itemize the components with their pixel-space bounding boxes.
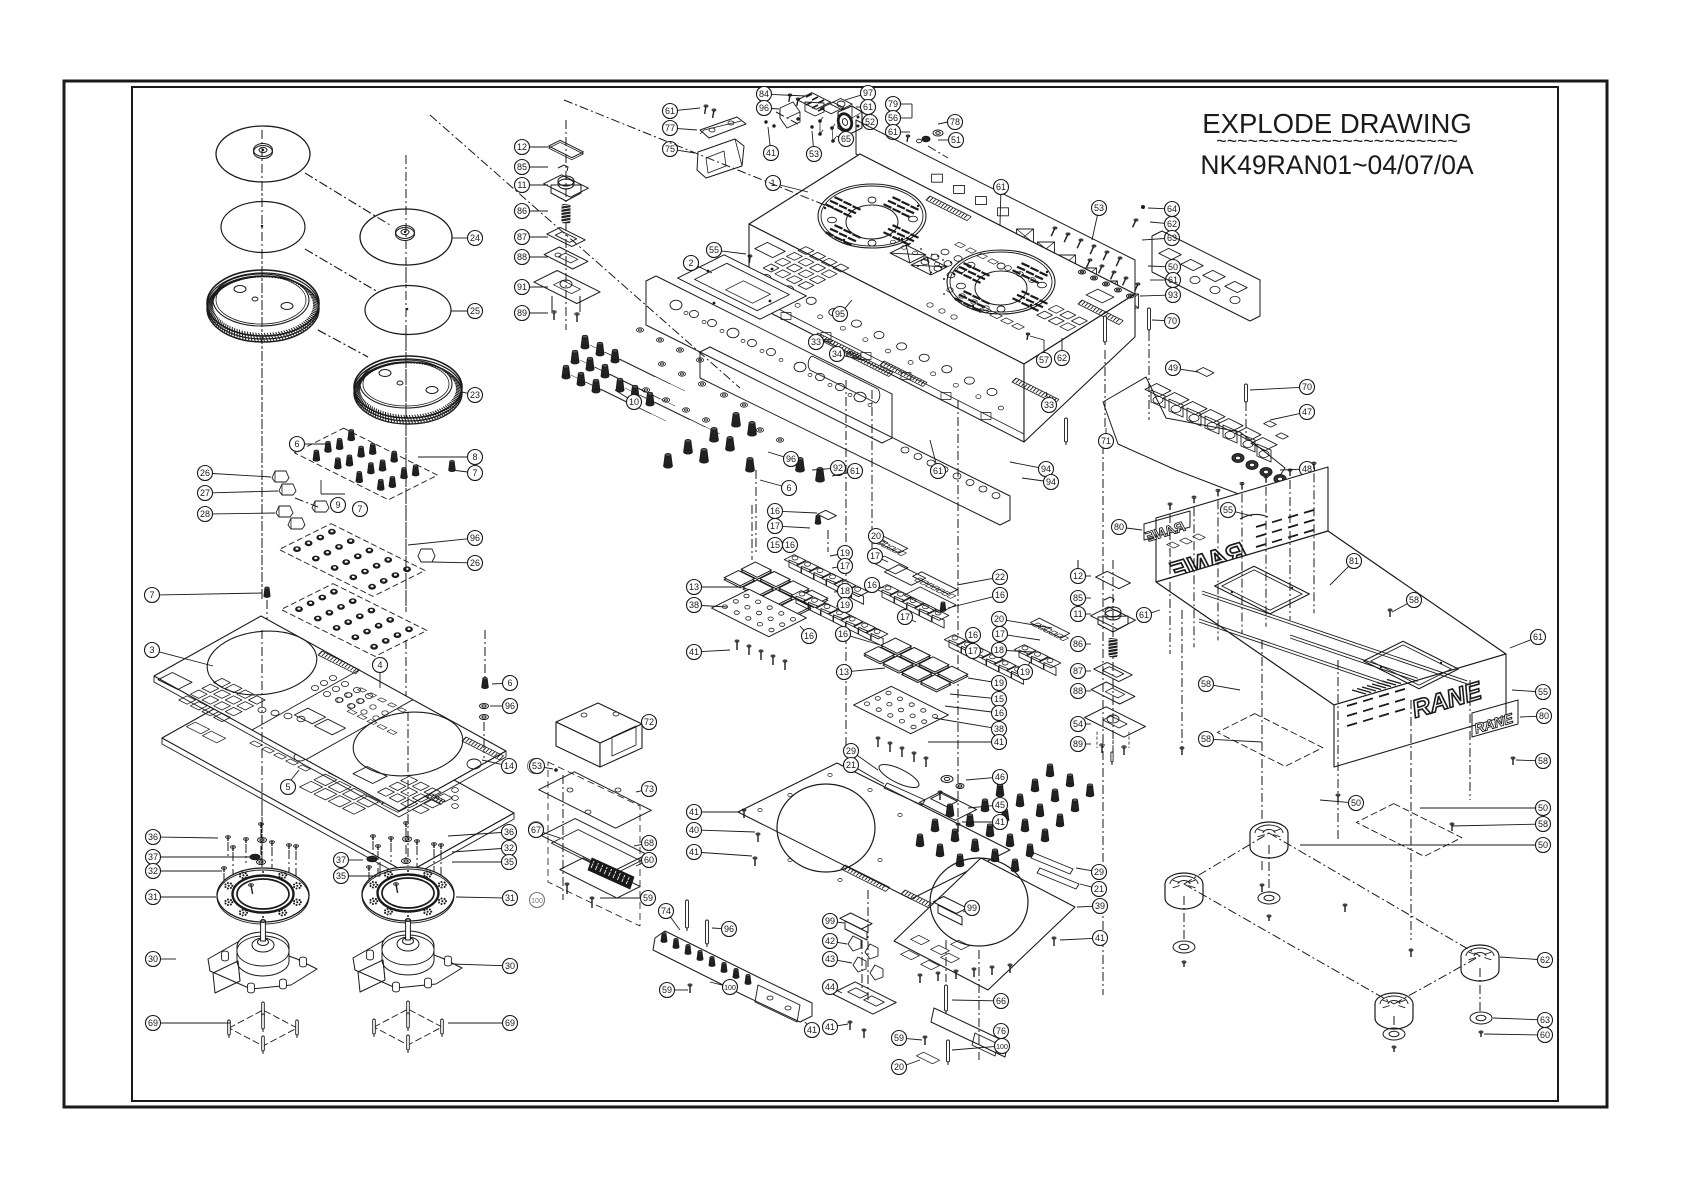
svg-text:20: 20 — [994, 614, 1004, 624]
svg-text:91: 91 — [517, 282, 527, 292]
svg-text:96: 96 — [759, 103, 769, 113]
svg-text:26: 26 — [470, 558, 480, 568]
svg-text:97: 97 — [863, 88, 873, 98]
svg-text:84: 84 — [759, 89, 769, 99]
svg-text:62: 62 — [1540, 955, 1550, 965]
svg-text:96: 96 — [724, 924, 734, 934]
svg-text:58: 58 — [1201, 679, 1211, 689]
svg-text:72: 72 — [644, 717, 654, 727]
svg-text:16: 16 — [995, 590, 1005, 600]
svg-text:12: 12 — [1073, 571, 1083, 581]
svg-text:71: 71 — [1101, 436, 1111, 446]
svg-text:87: 87 — [517, 232, 527, 242]
svg-text:60: 60 — [644, 855, 654, 865]
svg-text:2: 2 — [688, 258, 693, 268]
svg-text:6: 6 — [786, 483, 791, 493]
svg-text:54: 54 — [1073, 719, 1083, 729]
svg-text:16: 16 — [968, 630, 978, 640]
svg-text:28: 28 — [200, 509, 210, 519]
svg-text:69: 69 — [505, 1018, 515, 1028]
svg-text:86: 86 — [1073, 639, 1083, 649]
svg-text:73: 73 — [644, 784, 654, 794]
svg-text:99: 99 — [825, 916, 835, 926]
svg-text:61: 61 — [1533, 632, 1543, 642]
svg-text:85: 85 — [1073, 593, 1083, 603]
svg-text:88: 88 — [517, 252, 527, 262]
svg-text:34: 34 — [832, 349, 842, 359]
svg-text:41: 41 — [689, 847, 699, 857]
svg-text:4: 4 — [377, 660, 382, 670]
svg-text:41: 41 — [994, 737, 1004, 747]
svg-text:29: 29 — [1094, 867, 1104, 877]
svg-text:64: 64 — [1167, 204, 1177, 214]
svg-text:41: 41 — [689, 807, 699, 817]
svg-text:45: 45 — [995, 800, 1005, 810]
svg-text:55: 55 — [709, 245, 719, 255]
svg-text:43: 43 — [825, 954, 835, 964]
svg-text:56: 56 — [888, 113, 898, 123]
svg-text:42: 42 — [825, 936, 835, 946]
svg-text:62: 62 — [1167, 219, 1177, 229]
svg-text:29: 29 — [846, 746, 856, 756]
svg-text:38: 38 — [689, 600, 699, 610]
svg-text:51: 51 — [951, 135, 961, 145]
svg-text:70: 70 — [1167, 316, 1177, 326]
svg-text:66: 66 — [996, 996, 1006, 1006]
svg-text:17: 17 — [900, 612, 910, 622]
svg-text:61: 61 — [888, 127, 898, 137]
svg-text:19: 19 — [1020, 667, 1030, 677]
svg-text:30: 30 — [148, 954, 158, 964]
svg-text:96: 96 — [505, 701, 515, 711]
svg-text:59: 59 — [643, 893, 653, 903]
svg-text:50: 50 — [1351, 798, 1361, 808]
svg-text:41: 41 — [766, 148, 776, 158]
svg-text:13: 13 — [839, 667, 849, 677]
svg-text:16: 16 — [804, 631, 814, 641]
svg-text:18: 18 — [840, 586, 850, 596]
svg-text:94: 94 — [1041, 464, 1051, 474]
svg-text:69: 69 — [148, 1018, 158, 1028]
svg-text:96: 96 — [786, 454, 796, 464]
svg-text:65: 65 — [841, 134, 851, 144]
svg-text:12: 12 — [517, 142, 527, 152]
svg-text:16: 16 — [785, 540, 795, 550]
svg-text:60: 60 — [1540, 1030, 1550, 1040]
svg-text:19: 19 — [994, 678, 1004, 688]
svg-text:68: 68 — [644, 838, 654, 848]
svg-text:35: 35 — [504, 857, 514, 867]
svg-text:36: 36 — [148, 832, 158, 842]
svg-text:61: 61 — [996, 182, 1006, 192]
svg-text:21: 21 — [1094, 884, 1104, 894]
svg-text:33: 33 — [1044, 400, 1054, 410]
svg-text:86: 86 — [517, 206, 527, 216]
svg-text:41: 41 — [807, 1025, 817, 1035]
svg-text:57: 57 — [1039, 355, 1049, 365]
svg-text:55: 55 — [1223, 505, 1233, 515]
svg-text:61: 61 — [863, 102, 873, 112]
svg-text:18: 18 — [994, 645, 1004, 655]
svg-text:50: 50 — [1168, 262, 1178, 272]
svg-text:27: 27 — [200, 488, 210, 498]
svg-text:74: 74 — [661, 906, 671, 916]
svg-text:32: 32 — [504, 843, 514, 853]
svg-text:20: 20 — [871, 531, 881, 541]
svg-text:50: 50 — [1538, 803, 1548, 813]
svg-text:61: 61 — [1139, 610, 1149, 620]
svg-text:30: 30 — [505, 961, 515, 971]
svg-text:11: 11 — [517, 180, 526, 190]
svg-text:79: 79 — [888, 99, 898, 109]
svg-text:NK49RAN01~04/07/0A: NK49RAN01~04/07/0A — [1200, 150, 1474, 180]
svg-text:13: 13 — [689, 582, 699, 592]
svg-text:16: 16 — [867, 580, 877, 590]
svg-text:24: 24 — [470, 233, 480, 243]
svg-text:3: 3 — [149, 645, 154, 655]
svg-text:85: 85 — [517, 162, 527, 172]
svg-text:40: 40 — [689, 825, 699, 835]
svg-text:41: 41 — [995, 817, 1005, 827]
svg-text:7: 7 — [472, 468, 477, 478]
svg-text:25: 25 — [470, 306, 480, 316]
svg-text:37: 37 — [148, 852, 158, 862]
svg-text:39: 39 — [1095, 901, 1105, 911]
svg-text:17: 17 — [770, 521, 780, 531]
svg-text:16: 16 — [994, 708, 1004, 718]
svg-text:93: 93 — [1168, 290, 1178, 300]
svg-text:49: 49 — [1168, 363, 1178, 373]
svg-text:31: 31 — [148, 892, 158, 902]
svg-text:31: 31 — [505, 893, 515, 903]
svg-text:6: 6 — [507, 678, 512, 688]
svg-text:16: 16 — [838, 629, 848, 639]
svg-text:81: 81 — [1349, 556, 1359, 566]
svg-text:17: 17 — [870, 551, 880, 561]
svg-text:58: 58 — [1409, 595, 1419, 605]
svg-text:92: 92 — [833, 463, 843, 473]
svg-text:22: 22 — [995, 572, 1005, 582]
svg-text:96: 96 — [470, 533, 480, 543]
svg-text:15: 15 — [770, 540, 780, 550]
svg-text:87: 87 — [1073, 666, 1083, 676]
svg-text:17: 17 — [840, 561, 850, 571]
svg-text:20: 20 — [894, 1062, 904, 1072]
svg-text:7: 7 — [357, 504, 362, 514]
svg-text:61: 61 — [850, 466, 860, 476]
svg-text:35: 35 — [336, 871, 346, 881]
svg-text:41: 41 — [1095, 933, 1105, 943]
svg-text:11: 11 — [1073, 609, 1082, 619]
svg-text:67: 67 — [531, 825, 541, 835]
svg-text:88: 88 — [1073, 686, 1083, 696]
svg-text:100: 100 — [531, 898, 543, 905]
svg-text:61: 61 — [665, 106, 675, 116]
svg-text:21: 21 — [846, 760, 856, 770]
svg-text:15: 15 — [994, 694, 1004, 704]
svg-text:55: 55 — [1538, 687, 1548, 697]
svg-text:62: 62 — [1057, 353, 1067, 363]
svg-text:36: 36 — [504, 827, 514, 837]
svg-text:94: 94 — [1046, 477, 1056, 487]
svg-text:19: 19 — [840, 600, 850, 610]
svg-text:89: 89 — [1073, 739, 1083, 749]
svg-text:44: 44 — [825, 982, 835, 992]
svg-text:38: 38 — [994, 724, 1004, 734]
svg-text:58: 58 — [1201, 734, 1211, 744]
svg-text:58: 58 — [1538, 756, 1548, 766]
svg-text:100: 100 — [724, 985, 736, 992]
svg-text:53: 53 — [809, 149, 819, 159]
svg-text:99: 99 — [967, 903, 977, 913]
svg-text:47: 47 — [1302, 407, 1312, 417]
svg-text:7: 7 — [149, 590, 154, 600]
svg-text:23: 23 — [470, 390, 480, 400]
svg-text:75: 75 — [665, 144, 675, 154]
svg-text:26: 26 — [200, 468, 210, 478]
svg-text:41: 41 — [825, 1022, 835, 1032]
svg-text:41: 41 — [689, 647, 699, 657]
svg-text:61: 61 — [933, 466, 943, 476]
svg-text:14: 14 — [504, 761, 514, 771]
svg-text:10: 10 — [629, 397, 639, 407]
svg-text:9: 9 — [335, 500, 340, 510]
svg-text:33: 33 — [811, 337, 821, 347]
svg-text:6: 6 — [294, 439, 299, 449]
svg-text:16: 16 — [770, 506, 780, 516]
svg-text:~~~~~~~~~~~~~~~~~~~~~~~: ~~~~~~~~~~~~~~~~~~~~~~~ — [1216, 131, 1458, 151]
svg-text:77: 77 — [665, 123, 675, 133]
svg-text:53: 53 — [532, 761, 542, 771]
svg-text:63: 63 — [1540, 1015, 1550, 1025]
svg-text:59: 59 — [662, 985, 672, 995]
svg-text:100: 100 — [996, 1044, 1008, 1051]
svg-text:37: 37 — [336, 855, 346, 865]
svg-text:46: 46 — [995, 772, 1005, 782]
svg-text:80: 80 — [1114, 522, 1124, 532]
svg-text:8: 8 — [472, 452, 477, 462]
svg-text:80: 80 — [1539, 711, 1549, 721]
svg-text:53: 53 — [1094, 203, 1104, 213]
svg-text:95: 95 — [835, 309, 845, 319]
svg-text:89: 89 — [517, 308, 527, 318]
svg-text:17: 17 — [995, 629, 1005, 639]
svg-text:59: 59 — [894, 1033, 904, 1043]
svg-text:50: 50 — [1538, 840, 1548, 850]
svg-text:19: 19 — [840, 548, 850, 558]
svg-text:5: 5 — [285, 782, 290, 792]
svg-text:32: 32 — [148, 866, 158, 876]
svg-text:78: 78 — [950, 117, 960, 127]
svg-text:70: 70 — [1302, 382, 1312, 392]
svg-text:58: 58 — [1538, 819, 1548, 829]
svg-text:17: 17 — [968, 646, 978, 656]
svg-text:76: 76 — [996, 1026, 1006, 1036]
